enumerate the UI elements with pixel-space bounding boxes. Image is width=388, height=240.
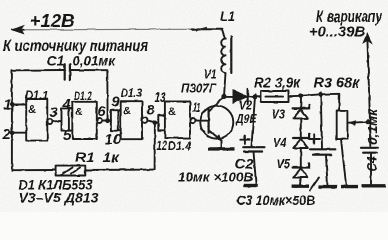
wire pin2 stub bbox=[12, 132, 26, 134]
svg-text:3: 3 bbox=[50, 105, 58, 121]
svg-text:4: 4 bbox=[62, 97, 71, 113]
svg-text:12: 12 bbox=[157, 138, 168, 153]
wire rail to C3 node bbox=[301, 94, 321, 96]
wire left rail bbox=[11, 70, 13, 170]
potentiometer R3 bbox=[337, 111, 370, 139]
resistor R1 bbox=[56, 166, 86, 176]
svg-text:+0...39В: +0...39В bbox=[309, 24, 365, 41]
svg-text:V1: V1 bbox=[204, 68, 217, 82]
wire +12V top rail with left arrow bbox=[12, 26, 225, 39]
svg-text:1: 1 bbox=[4, 98, 12, 114]
ground V1 emitter bbox=[208, 147, 235, 150]
diode V2 bbox=[224, 90, 261, 105]
gate D1.1 bbox=[26, 99, 52, 141]
svg-text:V3: V3 bbox=[272, 107, 286, 121]
wire C2 branch bbox=[252, 96, 256, 145]
plus C3 bbox=[309, 134, 320, 143]
gate D1.4 bbox=[165, 102, 196, 139]
svg-text:0,1мк: 0,1мк bbox=[365, 108, 380, 145]
zener V5 bbox=[293, 163, 310, 177]
ground C2 bbox=[244, 184, 258, 187]
node dot wiper junction bbox=[365, 119, 370, 124]
node dot C2 branch bbox=[253, 94, 258, 99]
svg-text:11: 11 bbox=[193, 100, 201, 115]
wire D1.4 out to V1 base bbox=[196, 120, 209, 122]
wire L1 to node bbox=[224, 73, 226, 96]
svg-text:С4: С4 bbox=[365, 156, 380, 171]
svg-text:2: 2 bbox=[2, 127, 11, 143]
svg-text:&: & bbox=[28, 104, 36, 116]
svg-text:D1.3: D1.3 bbox=[121, 88, 143, 100]
wire emitter down bbox=[221, 140, 223, 147]
svg-text:С3 10мк×50В: С3 10мк×50В bbox=[237, 193, 316, 208]
wire C3 branch bbox=[321, 94, 322, 148]
capacitor C1 bbox=[12, 64, 107, 79]
node dot pin2 bbox=[10, 130, 15, 135]
wire D1.3 out to junction bbox=[148, 120, 159, 122]
capacitor C3 bbox=[310, 149, 336, 184]
wire D1.3 inputs bracket bbox=[111, 110, 121, 131]
plus C2 bbox=[240, 135, 249, 144]
wire V4-V5 bbox=[300, 148, 302, 167]
svg-text:D1.2: D1.2 bbox=[74, 91, 92, 103]
svg-text:С1: С1 bbox=[47, 54, 65, 69]
svg-text:&: & bbox=[75, 106, 83, 118]
leader slash C3 bbox=[310, 178, 319, 191]
gate D1.3 bbox=[121, 101, 148, 139]
svg-text:+12В: +12В bbox=[30, 11, 75, 31]
svg-text:0,01мк: 0,01мк bbox=[73, 54, 117, 69]
svg-text:10: 10 bbox=[105, 132, 122, 148]
node dot pin1 bbox=[10, 102, 15, 107]
wire R3 bottom to ground bbox=[341, 139, 346, 184]
svg-text:9: 9 bbox=[112, 94, 120, 110]
wire zener chain top bbox=[300, 96, 302, 108]
node dot feedback junction bbox=[153, 120, 158, 125]
zener V4 bbox=[293, 134, 310, 148]
svg-text:6: 6 bbox=[98, 104, 107, 120]
svg-text:13: 13 bbox=[155, 90, 166, 106]
ground V5 bbox=[292, 184, 309, 187]
node dot C1 junction bbox=[105, 118, 110, 123]
wire pin1 stub bbox=[12, 104, 26, 106]
svg-text:D1.4: D1.4 bbox=[168, 141, 192, 153]
ground C3 bbox=[318, 185, 337, 188]
wire rail to R3 bend bbox=[321, 94, 340, 111]
zener V3 bbox=[293, 104, 310, 118]
wire bottom feedback rail right bbox=[85, 169, 154, 171]
wire output riser with arrow bbox=[363, 33, 372, 146]
svg-text:П307Г: П307Г bbox=[181, 82, 217, 96]
svg-text:К источнику питания: К источнику питания bbox=[3, 38, 148, 55]
svg-text:R3 68к: R3 68к bbox=[314, 75, 361, 92]
wire V5 to ground bbox=[299, 178, 302, 185]
svg-text:10мк ×100В: 10мк ×100В bbox=[178, 170, 253, 185]
gate D1.2 bbox=[72, 102, 102, 139]
svg-text:V5: V5 bbox=[277, 157, 291, 171]
inductor L1 bbox=[221, 37, 231, 73]
transistor V1 bbox=[200, 96, 233, 140]
wire C1 riser to D1.2 output bbox=[106, 70, 108, 121]
wire feedback drop bbox=[154, 122, 156, 169]
wire bottom feedback rail left bbox=[12, 169, 56, 171]
svg-text:D1.1: D1.1 bbox=[25, 90, 49, 102]
node dot zener branch bbox=[299, 93, 304, 98]
wire V3-V4 bbox=[300, 118, 302, 137]
svg-text:5: 5 bbox=[63, 128, 72, 144]
capacitor C2 bbox=[243, 147, 264, 183]
wire D1.4 inputs bracket bbox=[158, 115, 165, 131]
svg-text:R1 1к: R1 1к bbox=[75, 150, 120, 165]
svg-text:R2 3,9к: R2 3,9к bbox=[254, 76, 301, 92]
wire D1.2 out to junction bbox=[102, 120, 111, 122]
ground R3 bbox=[341, 185, 358, 188]
ground C4 bbox=[362, 184, 386, 187]
capacitor C4 bbox=[361, 148, 378, 184]
node dot L1/collector/V2 bbox=[221, 94, 226, 99]
wire D1.1 out to D1.2 inputs bracket bbox=[52, 108, 72, 130]
svg-text:V4: V4 bbox=[273, 136, 287, 150]
svg-text:&: & bbox=[123, 106, 131, 118]
wire R2 to zener node bbox=[289, 95, 302, 97]
node dot C3 branch bbox=[318, 92, 323, 97]
svg-text:&: & bbox=[168, 106, 176, 118]
svg-text:L1: L1 bbox=[220, 9, 235, 24]
svg-text:V3–V5 Д813: V3–V5 Д813 bbox=[19, 191, 100, 206]
resistor R2 bbox=[261, 91, 289, 102]
